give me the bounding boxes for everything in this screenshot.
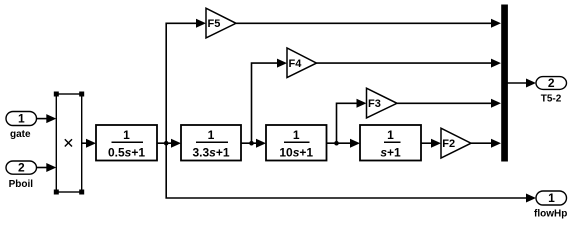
- selection handle top-right: [79, 92, 84, 97]
- inport 2 Pboil: [6, 161, 37, 190]
- wire mux to outport T5-2: [508, 79, 537, 88]
- inport 1 gate: [6, 112, 37, 141]
- svg-text:Pboil: Pboil: [9, 179, 34, 190]
- transfer fcn block 1/(3.3s+1): [181, 125, 241, 161]
- transfer fcn block 1/(0.5s+1): [96, 125, 157, 161]
- junction dot at x166: [164, 141, 169, 146]
- wire F5 to mux: [236, 19, 501, 28]
- wire Pboil to product: [37, 163, 57, 172]
- gain F4: [287, 48, 317, 78]
- outport 1 flowHp: [534, 191, 567, 220]
- svg-text:1: 1: [387, 128, 394, 142]
- selection handle bottom-left: [54, 190, 59, 195]
- svg-text:10s+1: 10s+1: [279, 146, 313, 160]
- wire F4 to mux: [317, 59, 502, 68]
- svg-text:2: 2: [548, 76, 555, 90]
- svg-text:1: 1: [293, 128, 300, 142]
- svg-text:flowHp: flowHp: [534, 209, 567, 220]
- svg-text:1: 1: [123, 128, 130, 142]
- wire transfer3 to transfer4 with branch junction: [327, 139, 361, 148]
- svg-text:1: 1: [208, 128, 215, 142]
- svg-text:gate: gate: [10, 129, 31, 140]
- svg-text:1: 1: [18, 112, 25, 126]
- outport 2 T5-2: [536, 76, 567, 105]
- svg-text:F3: F3: [368, 98, 381, 110]
- gain F2: [441, 128, 471, 158]
- transfer fcn block 1/(10s+1): [266, 125, 327, 161]
- svg-text:F2: F2: [442, 138, 455, 150]
- svg-text:T5-2: T5-2: [541, 94, 562, 105]
- branch wire up to gain F3: [337, 99, 367, 143]
- wire F2 to mux: [471, 139, 501, 148]
- wire gate to product: [37, 114, 57, 123]
- svg-text:s+1: s+1: [380, 146, 401, 160]
- branch wire down to outport flowHp: [166, 143, 536, 202]
- branch wire up to gain F5: [166, 19, 206, 143]
- wire transfer2 to transfer3 with branch junction: [241, 139, 266, 148]
- gain F3: [367, 88, 398, 118]
- junction dot at x336: [334, 141, 339, 146]
- junction dot at x251: [249, 141, 254, 146]
- product block (selected): [56, 94, 81, 192]
- svg-text:3.3s+1: 3.3s+1: [192, 146, 229, 160]
- wire transfer4 to gain F2: [421, 139, 441, 148]
- transfer fcn block 1/(s+1): [360, 125, 421, 161]
- selection handle top-left: [54, 92, 59, 97]
- svg-text:0.5s+1: 0.5s+1: [108, 146, 145, 160]
- branch wire up to gain F4: [252, 59, 288, 144]
- mux block: [501, 5, 508, 162]
- gain F5: [206, 8, 236, 38]
- svg-text:F4: F4: [289, 58, 303, 70]
- selection handle bottom-right: [79, 190, 84, 195]
- svg-text:1: 1: [548, 191, 555, 205]
- svg-text:2: 2: [18, 161, 25, 175]
- wire transfer1 to transfer2 with branch junction: [157, 139, 181, 148]
- svg-text:F5: F5: [208, 18, 221, 30]
- wire product to transfer fcn 1: [82, 139, 96, 148]
- wire F3 to mux: [397, 99, 501, 108]
